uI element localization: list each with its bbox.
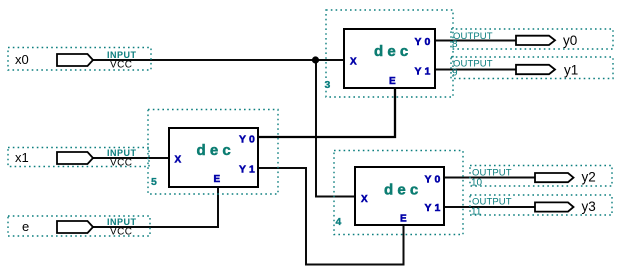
svg-text:y1: y1 — [564, 62, 578, 77]
svg-text:5: 5 — [151, 176, 157, 188]
svg-text:y2: y2 — [582, 169, 596, 184]
svg-text:E: E — [400, 214, 407, 225]
output pin y1 — [451, 57, 613, 79]
svg-text:VCC: VCC — [110, 158, 132, 169]
wire net x1 to dec 5 pin X — [92, 157, 169, 159]
symbol body dec 5 — [169, 128, 258, 187]
wire net x0 branch down to dec 4 pin X — [316, 60, 355, 197]
input pin symbol x0 — [57, 54, 93, 66]
svg-text:y3: y3 — [582, 199, 596, 214]
input pin symbol e — [57, 221, 93, 233]
selection box y3 — [470, 195, 612, 215]
svg-text:Y1: Y1 — [415, 66, 434, 78]
svg-text:dec: dec — [384, 182, 422, 199]
output pin symbol y0 — [516, 36, 555, 45]
svg-text:Y1: Y1 — [239, 164, 258, 176]
svg-text:4: 4 — [336, 216, 342, 228]
svg-text:INPUT: INPUT — [107, 148, 137, 158]
selection box dec 5 — [148, 110, 278, 195]
svg-text:E: E — [389, 76, 396, 87]
wire dec 5 Y0 to dec 3 pin E — [258, 88, 395, 137]
symbol body dec 3 — [344, 29, 435, 88]
wire dec 4 Y0 to output pin y2 — [444, 177, 536, 179]
svg-text:9: 9 — [452, 68, 458, 79]
svg-text:e: e — [22, 219, 29, 234]
svg-text:X: X — [361, 194, 368, 205]
svg-text:OUTPUT: OUTPUT — [453, 31, 493, 42]
input pin x1 — [8, 148, 149, 169]
svg-text:Y1: Y1 — [425, 202, 444, 214]
selection box dec 3 — [326, 10, 453, 97]
svg-text:Y0: Y0 — [239, 134, 258, 146]
dec block instance 4 — [334, 151, 463, 235]
output pin y0 — [451, 29, 613, 50]
wire dec 3 Y0 to output pin y0 — [435, 40, 517, 42]
dec block instance 5 — [148, 110, 278, 195]
svg-text:X: X — [350, 57, 357, 68]
selection box dec 4 — [334, 151, 463, 235]
output pin y3 — [470, 195, 612, 217]
junction node x0 — [312, 56, 319, 63]
svg-text:3: 3 — [325, 79, 331, 91]
svg-text:Y0: Y0 — [425, 174, 444, 186]
svg-text:8: 8 — [452, 39, 458, 50]
svg-text:y0: y0 — [563, 33, 577, 48]
output pin symbol y3 — [535, 202, 574, 211]
input pin x0 — [8, 48, 151, 71]
svg-text:OUTPUT: OUTPUT — [453, 59, 493, 70]
output pin symbol y1 — [516, 65, 555, 74]
svg-text:10: 10 — [471, 178, 483, 189]
svg-text:VCC: VCC — [110, 60, 132, 71]
svg-text:dec: dec — [374, 43, 412, 60]
output pin y2 — [470, 166, 612, 189]
output pin symbol y2 — [535, 173, 574, 182]
svg-text:X: X — [175, 155, 182, 166]
selection box y0 — [451, 29, 613, 49]
wire dec 5 Y1 to dec 4 pin E — [258, 168, 404, 265]
wire dec 4 Y1 to output pin y3 — [444, 206, 536, 208]
wire net x0 horizontal run — [92, 59, 344, 61]
input pin e — [8, 216, 150, 238]
svg-text:11: 11 — [471, 206, 482, 217]
svg-text:dec: dec — [197, 142, 235, 159]
selection box x1 — [8, 148, 149, 167]
svg-text:E: E — [214, 174, 221, 185]
wire net e to dec 5 pin E — [92, 186, 218, 227]
wire dec 3 Y1 to output pin y1 — [435, 69, 517, 71]
dec block instance 3 — [325, 10, 454, 97]
selection box e — [8, 216, 150, 236]
selection box y2 — [470, 166, 612, 187]
selection box y1 — [451, 57, 613, 79]
svg-text:x1: x1 — [15, 150, 29, 165]
svg-text:Y0: Y0 — [415, 36, 434, 48]
svg-text:x0: x0 — [15, 52, 29, 67]
selection box x0 — [8, 48, 151, 71]
symbol body dec 4 — [355, 167, 444, 225]
svg-text:INPUT: INPUT — [107, 217, 137, 227]
input pin symbol x1 — [57, 152, 93, 164]
svg-text:VCC: VCC — [110, 227, 132, 238]
svg-text:INPUT: INPUT — [107, 50, 137, 60]
